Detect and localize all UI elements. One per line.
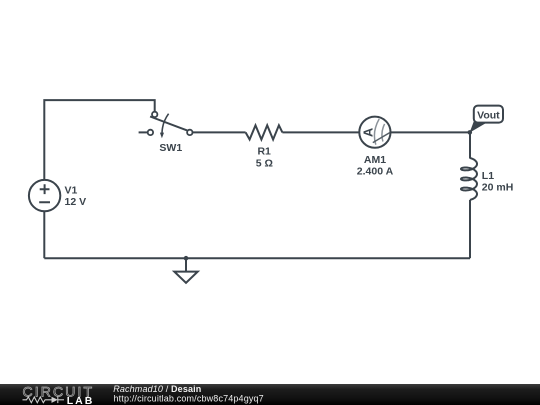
ground: [174, 258, 197, 283]
switch SW1: [139, 112, 193, 138]
ammeter AM1: [359, 117, 390, 148]
label V1 value: [65, 185, 87, 208]
svg-text:R1: R1: [257, 146, 271, 158]
wire resistor to ammeter: [282, 131, 359, 133]
svg-text:Vout: Vout: [477, 110, 500, 122]
svg-text:20 mH: 20 mH: [482, 182, 514, 194]
wire ammeter to Vout node: [390, 131, 470, 133]
svg-text:A: A: [361, 127, 376, 137]
footer bar: [0, 384, 540, 405]
svg-text:LAB: LAB: [67, 395, 93, 405]
svg-text:V1: V1: [65, 185, 78, 197]
label R1 value: [256, 146, 273, 170]
wire top-left loop: [44, 100, 154, 180]
label AM1 value: [357, 154, 394, 178]
flag Vout box: [474, 106, 503, 123]
wire switch to resistor: [192, 131, 245, 133]
wire V1 bottom to bottom rail: [43, 211, 45, 258]
inductor L1: [461, 158, 477, 200]
svg-text:L1: L1: [482, 170, 494, 182]
svg-text:2.400 A: 2.400 A: [357, 166, 394, 178]
node ground junction dot: [184, 256, 189, 261]
label L1 value: [482, 170, 514, 194]
svg-text:http://circuitlab.com/cbw8c74p: http://circuitlab.com/cbw8c74p4gyq7: [114, 393, 264, 403]
svg-text:12 V: 12 V: [65, 196, 87, 208]
svg-text:SW1: SW1: [159, 142, 182, 154]
node Vout junction dot: [468, 130, 473, 135]
flag Vout pointer: [470, 120, 487, 132]
voltage source V1: [29, 180, 60, 211]
svg-text:AM1: AM1: [364, 154, 386, 166]
resistor R1: [246, 125, 283, 139]
wire inductor to bottom rail: [469, 200, 471, 258]
wire bottom rail: [44, 257, 470, 259]
svg-text:5 Ω: 5 Ω: [256, 157, 273, 169]
wire Vout node to inductor: [469, 132, 471, 158]
logo resistor-diode squiggle: [23, 397, 65, 404]
